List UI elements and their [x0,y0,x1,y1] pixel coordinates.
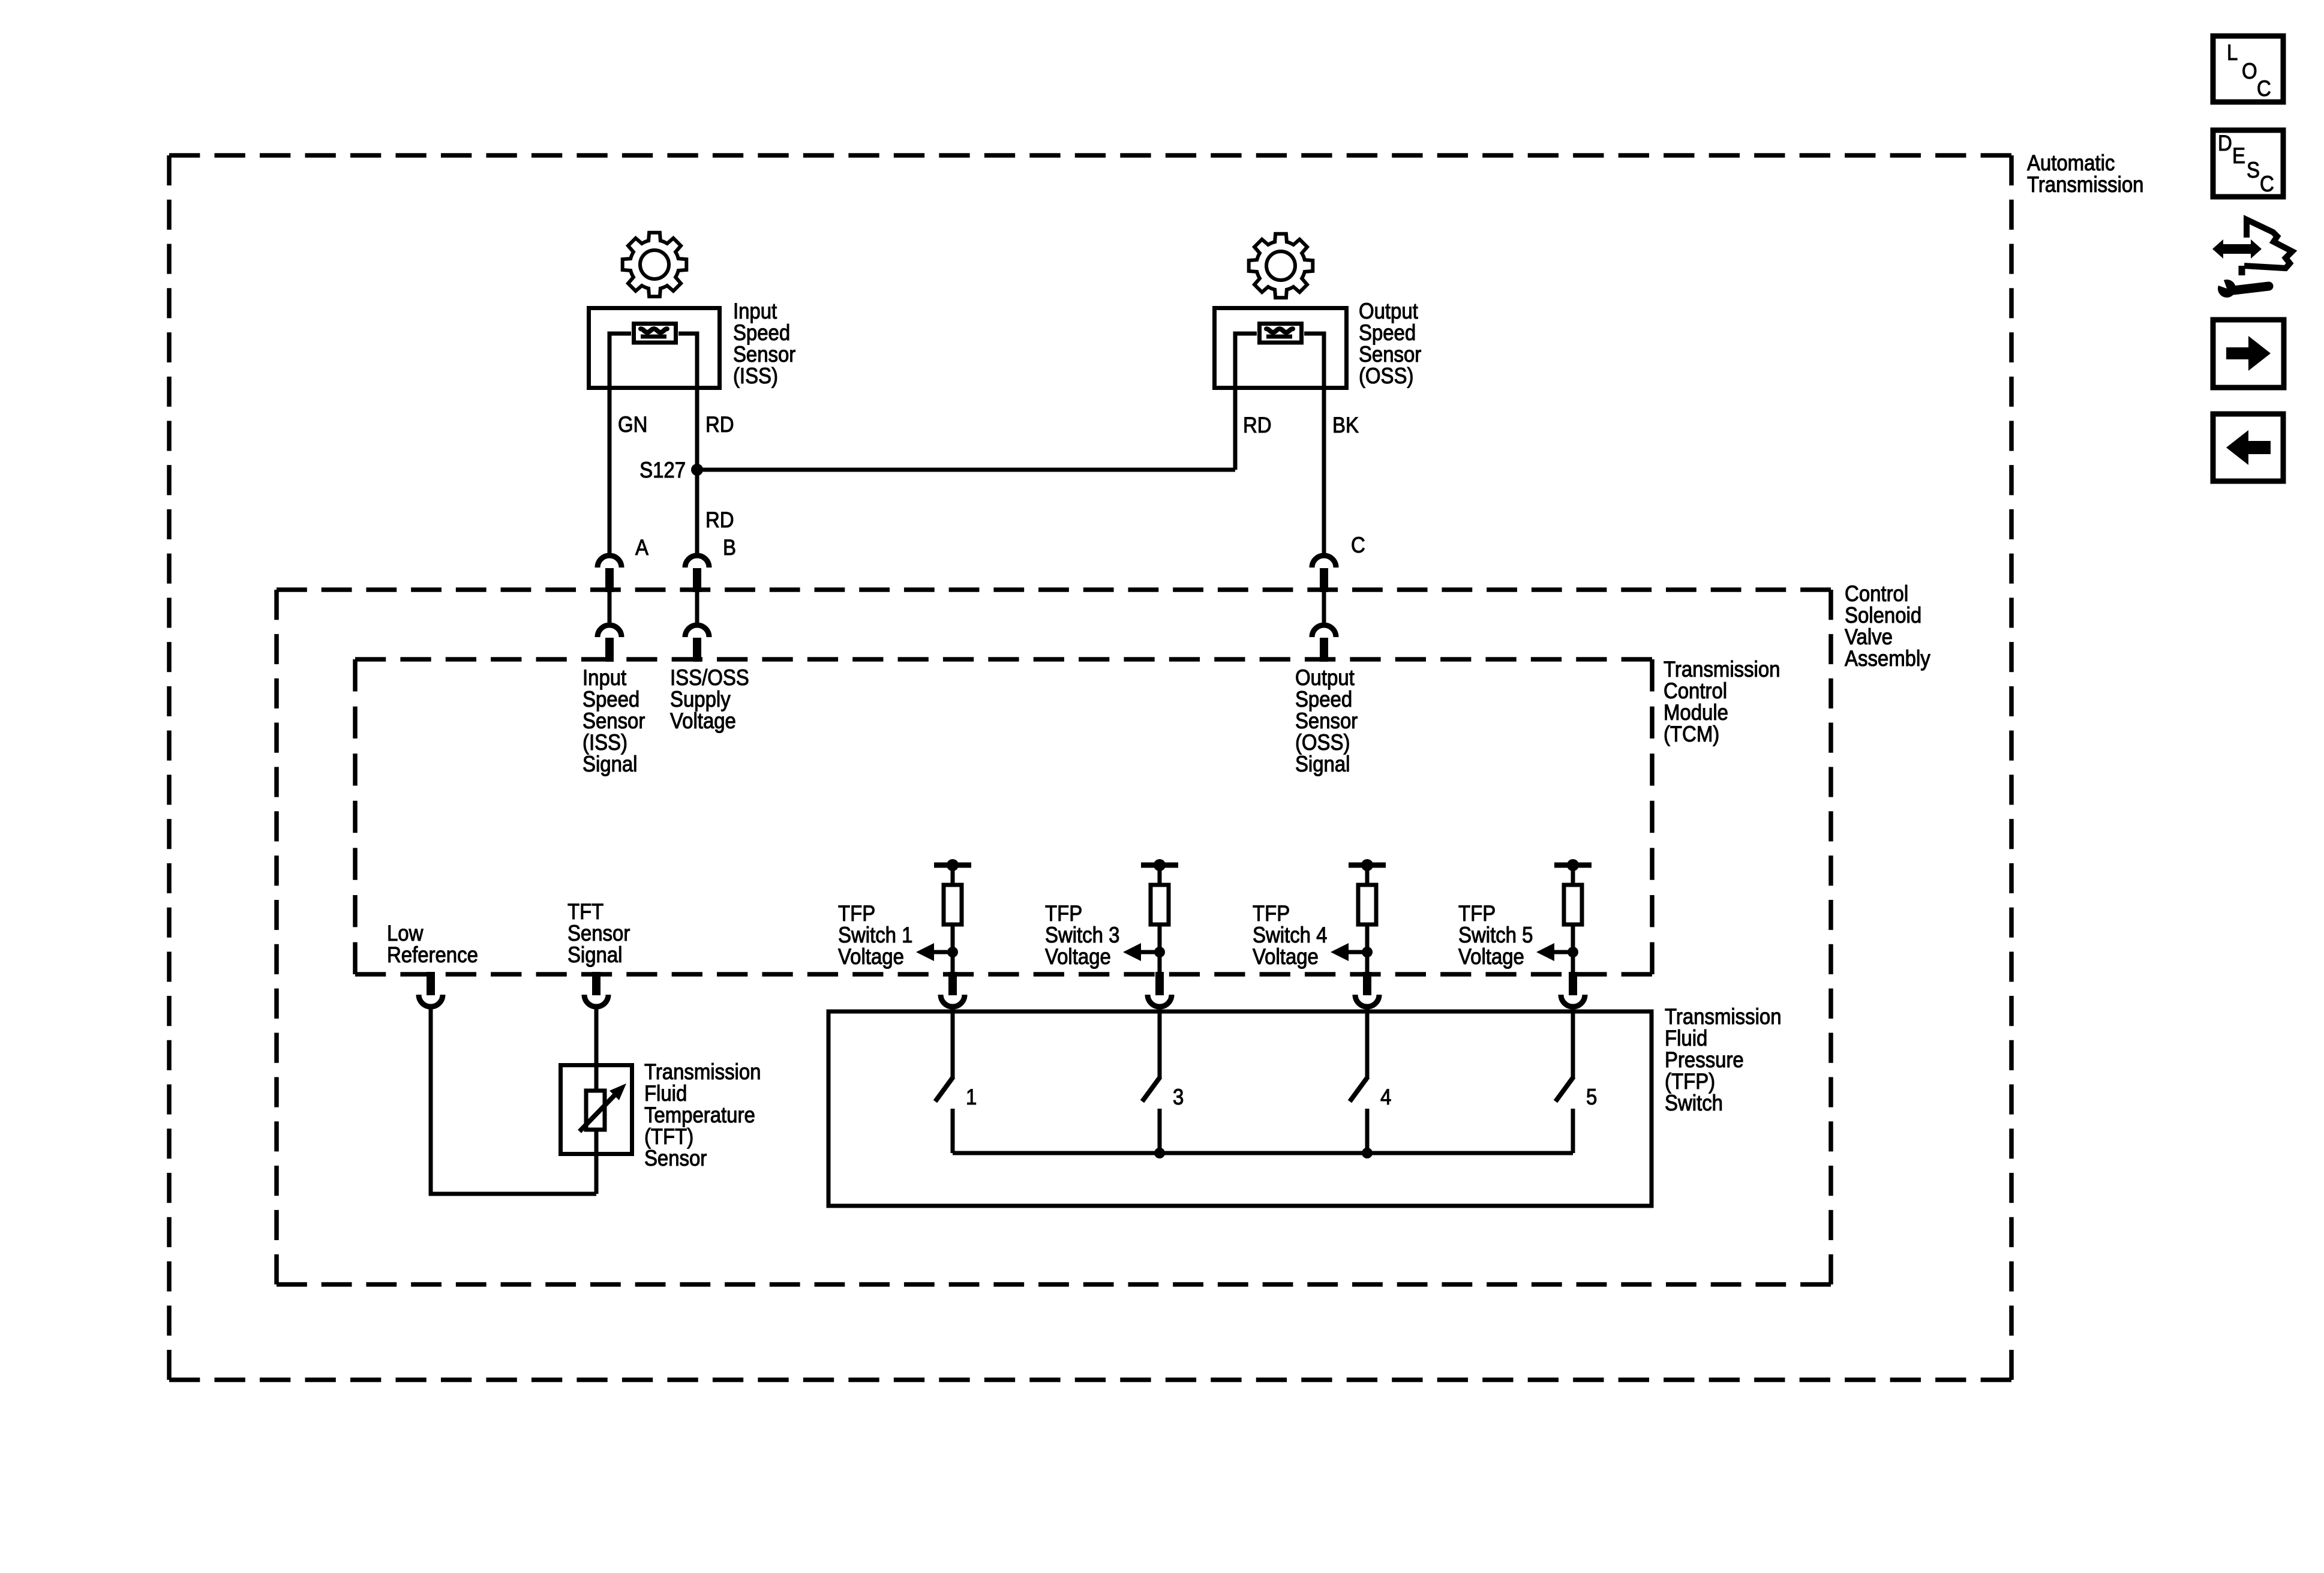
switch 3 upper contact [1158,1009,1162,1078]
wire resistor 4 to node [1365,924,1370,974]
svg-text:Transmission: Transmission [2027,172,2144,197]
svg-text:BK: BK [1332,413,1359,437]
connector TFP switch 5 at TCM bottom [1569,972,1577,995]
icon: next (right arrow) box [2213,320,2284,388]
resistor (TFP switch 4 pull-up) [1358,885,1376,924]
svg-text:Assembly: Assembly [1845,646,1930,671]
transmission fluid temperature (TFT) sensor box [561,1065,632,1154]
svg-text:RD: RD [705,412,734,437]
wire splice S127 to OSS RD [697,468,1235,472]
svg-text:4: 4 [1380,1085,1391,1109]
svg-text:Signal: Signal [582,752,638,776]
connector pin C at TCM boundary [1312,625,1336,637]
wire RD from ISS pin B [695,390,699,557]
svg-text:GN: GN [618,412,647,437]
svg-text:Voltage: Voltage [1458,944,1524,969]
icon: diagnostic harness outline [2244,220,2292,268]
resistor (TFP switch 1 pull-up) [944,885,962,924]
wire rail to resistor 3 [1158,865,1162,885]
wire low reference [431,1007,596,1194]
control solenoid valve assembly boundary (dashed box) [277,590,1831,1284]
wire pin B between connectors [695,592,699,626]
icon: DESC box [2213,130,2283,197]
resistor (TFP switch 5 pull-up) [1564,885,1582,924]
switch 4 blade (open) [1350,1077,1368,1101]
TFP switch 5 pull-up rail tick [1554,863,1592,868]
svg-text:O: O [2242,59,2257,83]
wire GN from ISS pin A [608,390,612,557]
switch 5 lower contact [1571,1109,1575,1153]
connector pin A at TCM boundary [597,625,621,637]
svg-text:3: 3 [1173,1085,1184,1109]
icon: diagnostic harness double-arrow [2212,239,2262,259]
connector pin B at TCM boundary [685,625,709,637]
connector TFT Sensor Signal at TCM bottom [592,972,600,995]
svg-text:L: L [2227,40,2238,65]
wire RD from OSS [1233,390,1238,470]
wire BK from OSS pin C [1322,390,1326,557]
svg-text:Reference: Reference [387,942,478,967]
arrow TFP switch 5 voltage [1554,950,1573,954]
svg-text:Voltage: Voltage [670,709,736,733]
svg-text:Sensor: Sensor [644,1146,707,1170]
icon: back (left arrow) box [2213,414,2283,481]
switch 1 lower contact [951,1109,955,1153]
svg-text:5: 5 [1586,1085,1597,1109]
gear icon (input speed sensor) [623,233,687,297]
TCM boundary (dashed box) [355,659,1652,974]
wire pin A between connectors [608,592,612,626]
splice S127 junction dot [691,464,703,476]
svg-text:S127: S127 [639,458,686,482]
svg-text:1: 1 [966,1085,977,1109]
connector TFP switch 1 at TCM bottom [948,972,957,995]
connector pin C at solenoid-assembly boundary [1312,556,1336,568]
svg-text:Voltage: Voltage [1045,944,1111,969]
switch 3 lower contact [1158,1109,1162,1153]
switch 1 upper contact [951,1009,955,1078]
switch 3 blade (open) [1142,1077,1160,1101]
svg-text:E: E [2232,143,2245,168]
switch 5 blade (open) [1556,1077,1574,1101]
wire resistor 3 to node [1158,924,1162,974]
svg-text:C: C [2257,76,2271,101]
svg-text:S: S [2247,158,2260,182]
switch 1 blade (open) [935,1077,953,1101]
TFP switch 1 pull-up rail tick [934,863,971,868]
node dot TFP switch 1 voltage [947,947,958,957]
wire rail to resistor 5 [1571,865,1575,885]
ISS pickup coil symbol [634,324,676,343]
svg-text:(ISS): (ISS) [733,364,778,388]
connector pin B at solenoid-assembly boundary [685,556,709,568]
connector Low Reference at TCM bottom [427,972,435,995]
TFP switch 3 pull-up rail tick [1141,863,1178,868]
switch 5 upper contact [1571,1009,1575,1078]
bus junction dot at switch 4 [1362,1148,1373,1158]
svg-text:A: A [635,535,649,560]
resistor (TFP switch 3 pull-up) [1151,885,1169,924]
gear icon (output speed sensor) [1249,234,1313,298]
svg-text:Signal: Signal [1295,752,1350,776]
svg-text:B: B [723,535,736,560]
svg-text:(TCM): (TCM) [1664,722,1719,746]
TFT thermistor resistor [586,1091,605,1130]
common bus wire of TFP switches [953,1151,1573,1155]
wire pin C between connectors [1322,592,1326,626]
svg-text:C: C [1351,533,1365,557]
OSS pickup coil symbol [1260,324,1302,343]
automatic transmission boundary (dashed box) [169,155,2011,1380]
node dot TFP switch 4 voltage [1362,947,1373,957]
svg-text:Voltage: Voltage [1253,944,1319,969]
svg-text:RD: RD [705,508,734,532]
TFP switch 4 pull-up rail tick [1349,863,1386,868]
bus junction dot at switch 3 [1154,1148,1165,1158]
icon: LOC box [2213,36,2283,102]
svg-text:(OSS): (OSS) [1359,364,1413,388]
wire resistor 1 to node [951,924,955,974]
arrow TFP switch 3 voltage [1141,950,1160,954]
input speed sensor (ISS) box [589,308,720,388]
svg-text:D: D [2218,131,2232,155]
output speed sensor (OSS) box [1215,308,1347,388]
connector pin A at solenoid-assembly boundary [597,556,621,568]
svg-text:Switch: Switch [1665,1091,1723,1115]
connector TFP switch 3 at TCM bottom [1155,972,1164,995]
svg-text:Voltage: Voltage [838,944,904,969]
wire TFT sensor bottom [594,1130,599,1194]
connector TFP switch 4 at TCM bottom [1363,972,1371,995]
svg-text:C: C [2260,172,2274,196]
node dot TFP switch 5 voltage [1568,947,1578,957]
wire resistor 5 to node [1571,924,1575,974]
wire TFT sensor signal [594,1007,599,1091]
wire rail to resistor 4 [1365,865,1370,885]
arrow TFP switch 4 voltage [1349,950,1367,954]
switch 4 lower contact [1365,1109,1370,1153]
icon: wrench [2233,286,2269,290]
svg-text:Signal: Signal [568,942,623,967]
svg-text:RD: RD [1243,413,1272,437]
node dot TFP switch 3 voltage [1154,947,1165,957]
wire rail to resistor 1 [951,865,955,885]
transmission fluid pressure (TFP) switch box [828,1011,1652,1206]
arrow TFP switch 1 voltage [934,950,953,954]
OSS internal wires [1235,334,1324,390]
TFT thermistor arrow [580,1094,615,1131]
switch 4 upper contact [1365,1009,1370,1078]
ISS internal wires [609,334,697,390]
